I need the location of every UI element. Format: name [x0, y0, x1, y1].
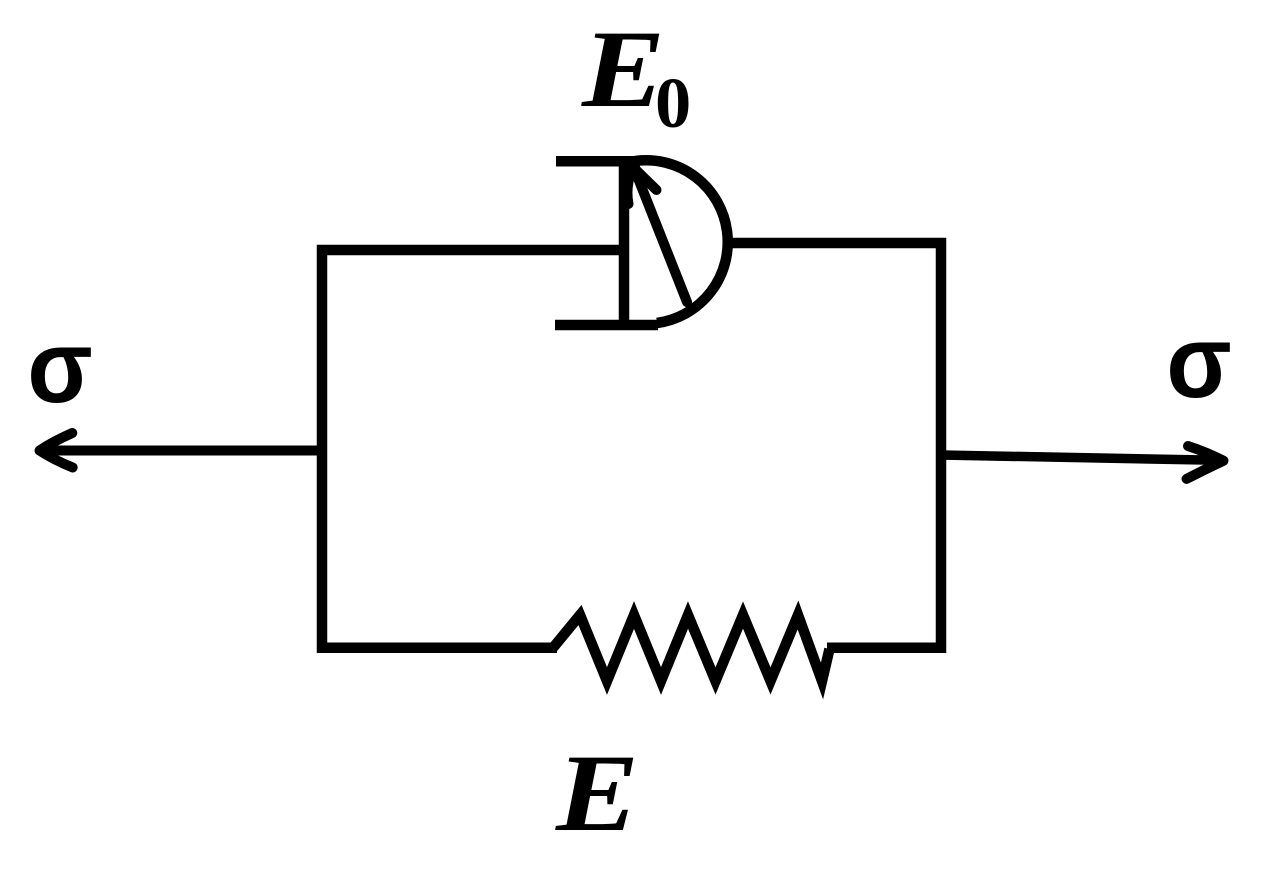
right stress arrow shaft — [941, 455, 1218, 460]
gauge E0: D-shaped arc — [635, 160, 728, 323]
gauge E0: needle arrowhead — [627, 167, 656, 204]
svg-text:E: E — [555, 733, 639, 855]
gauge E0: top short line — [556, 156, 640, 167]
gauge E0: bottom short line — [555, 320, 658, 331]
wire: bottom-right horizontal + right vertical + top-right horizontal — [724, 243, 941, 648]
wire: top-left horizontal + left vertical + bottom-left horizontal — [322, 250, 624, 648]
gauge E0: needle shaft — [634, 168, 687, 302]
right stress arrowhead — [1187, 446, 1224, 479]
svg-text:E: E — [581, 9, 665, 131]
svg-text:σ: σ — [27, 310, 92, 425]
gauge E0: vertical bar — [619, 156, 630, 330]
left stress arrow shaft — [45, 446, 322, 456]
svg-text:0: 0 — [655, 62, 691, 143]
svg-text:σ: σ — [1166, 305, 1231, 420]
left stress arrowhead — [40, 433, 73, 468]
spring E (zigzag) — [553, 615, 830, 681]
